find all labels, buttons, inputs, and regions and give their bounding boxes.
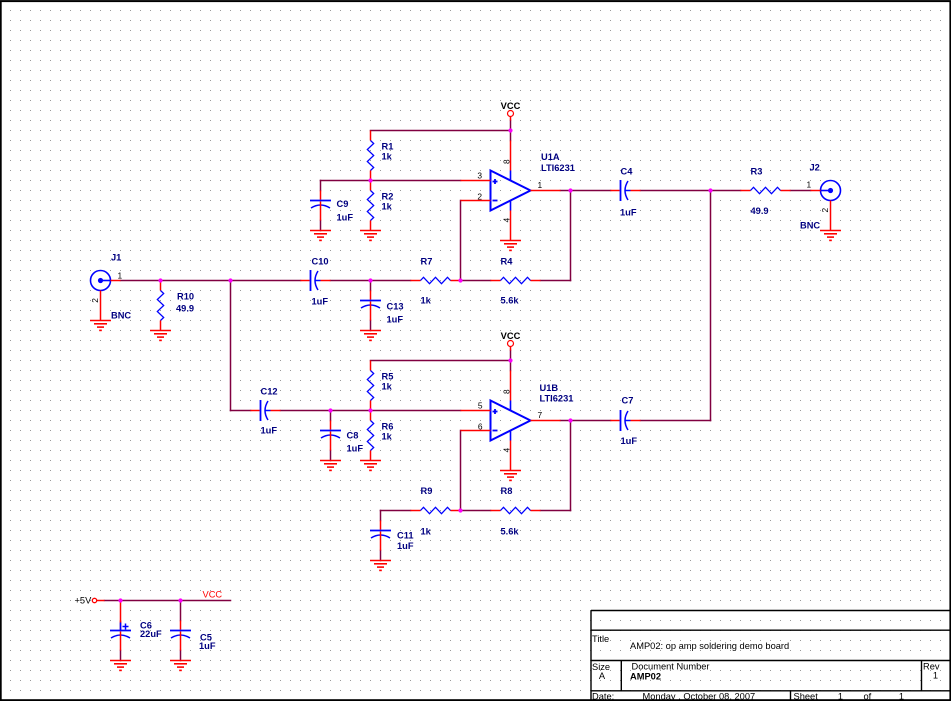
svg-text:1uF: 1uF (347, 444, 364, 454)
svg-text:Date:: Date: (592, 692, 614, 701)
svg-text:49.9: 49.9 (176, 304, 194, 314)
svg-text:LTI6231: LTI6231 (541, 163, 575, 173)
svg-text:VCC: VCC (203, 590, 223, 600)
svg-text:C12: C12 (261, 387, 278, 397)
svg-text:BNC: BNC (800, 221, 820, 231)
svg-text:1k: 1k (382, 202, 393, 212)
svg-text:49.9: 49.9 (751, 206, 769, 216)
svg-text:C8: C8 (347, 431, 359, 441)
svg-text:1uF: 1uF (199, 641, 216, 651)
svg-text:1uF: 1uF (621, 436, 638, 446)
svg-text:R8: R8 (501, 486, 513, 496)
svg-text:8: 8 (502, 389, 512, 394)
svg-text:Monday , October 08, 2007: Monday , October 08, 2007 (643, 692, 756, 701)
svg-text:C4: C4 (621, 167, 634, 177)
svg-text:BNC: BNC (111, 311, 131, 321)
svg-text:5.6k: 5.6k (501, 527, 520, 537)
svg-text:5.6k: 5.6k (501, 296, 520, 306)
svg-text:1uF: 1uF (312, 297, 329, 307)
svg-text:1: 1 (538, 180, 543, 190)
svg-text:Title: Title (592, 634, 609, 644)
svg-text:Sheet: Sheet (794, 692, 819, 701)
svg-text:C11: C11 (397, 531, 414, 541)
svg-text:A: A (599, 671, 606, 681)
svg-text:R3: R3 (751, 167, 763, 177)
svg-text:R9: R9 (421, 486, 433, 496)
svg-text:1uF: 1uF (261, 426, 278, 436)
svg-text:2: 2 (820, 208, 830, 213)
svg-text:J2: J2 (810, 163, 820, 173)
svg-text:J1: J1 (111, 253, 121, 263)
svg-text:1: 1 (933, 671, 938, 681)
svg-text:+5V: +5V (75, 596, 93, 606)
svg-text:22uF: 22uF (140, 629, 162, 639)
svg-text:of: of (864, 692, 872, 701)
svg-text:VCC: VCC (501, 331, 521, 341)
svg-text:AMP02: AMP02 (630, 672, 661, 682)
svg-text:C13: C13 (387, 302, 404, 312)
svg-text:6: 6 (478, 421, 483, 431)
svg-text:1k: 1k (421, 296, 432, 306)
svg-text:LTI6231: LTI6231 (540, 394, 574, 404)
svg-text:R2: R2 (382, 192, 394, 202)
svg-text:2: 2 (477, 191, 482, 201)
svg-text:R6: R6 (382, 422, 394, 432)
svg-text:4: 4 (502, 218, 512, 223)
svg-text:1: 1 (807, 180, 812, 190)
svg-text:1uF: 1uF (337, 213, 354, 223)
svg-text:R1: R1 (382, 142, 394, 152)
svg-text:1uF: 1uF (387, 315, 404, 325)
svg-text:5: 5 (478, 401, 483, 411)
svg-text:R7: R7 (421, 257, 433, 267)
svg-text:C7: C7 (622, 396, 634, 406)
svg-text:3: 3 (477, 171, 482, 181)
svg-text:AMP02: op amp soldering demo b: AMP02: op amp soldering demo board (630, 641, 789, 651)
svg-text:1k: 1k (382, 382, 393, 392)
svg-text:R10: R10 (177, 292, 194, 302)
svg-text:1k: 1k (382, 152, 393, 162)
svg-text:C9: C9 (337, 199, 349, 209)
svg-text:Document Number: Document Number (632, 662, 710, 672)
svg-text:1k: 1k (421, 527, 432, 537)
svg-text:VCC: VCC (501, 101, 521, 111)
svg-text:1uF: 1uF (620, 208, 637, 218)
svg-text:7: 7 (538, 410, 543, 420)
svg-text:1k: 1k (382, 432, 393, 442)
svg-text:U1A: U1A (541, 152, 560, 162)
svg-text:1: 1 (838, 692, 843, 701)
svg-text:R5: R5 (382, 372, 394, 382)
svg-text:8: 8 (502, 159, 512, 164)
svg-text:R4: R4 (501, 257, 514, 267)
svg-text:U1B: U1B (540, 383, 559, 393)
svg-text:1: 1 (118, 271, 123, 281)
svg-text:2: 2 (90, 298, 100, 303)
svg-text:1: 1 (899, 692, 904, 701)
svg-text:4: 4 (502, 448, 512, 453)
svg-text:C10: C10 (312, 257, 329, 267)
svg-text:1uF: 1uF (397, 541, 414, 551)
